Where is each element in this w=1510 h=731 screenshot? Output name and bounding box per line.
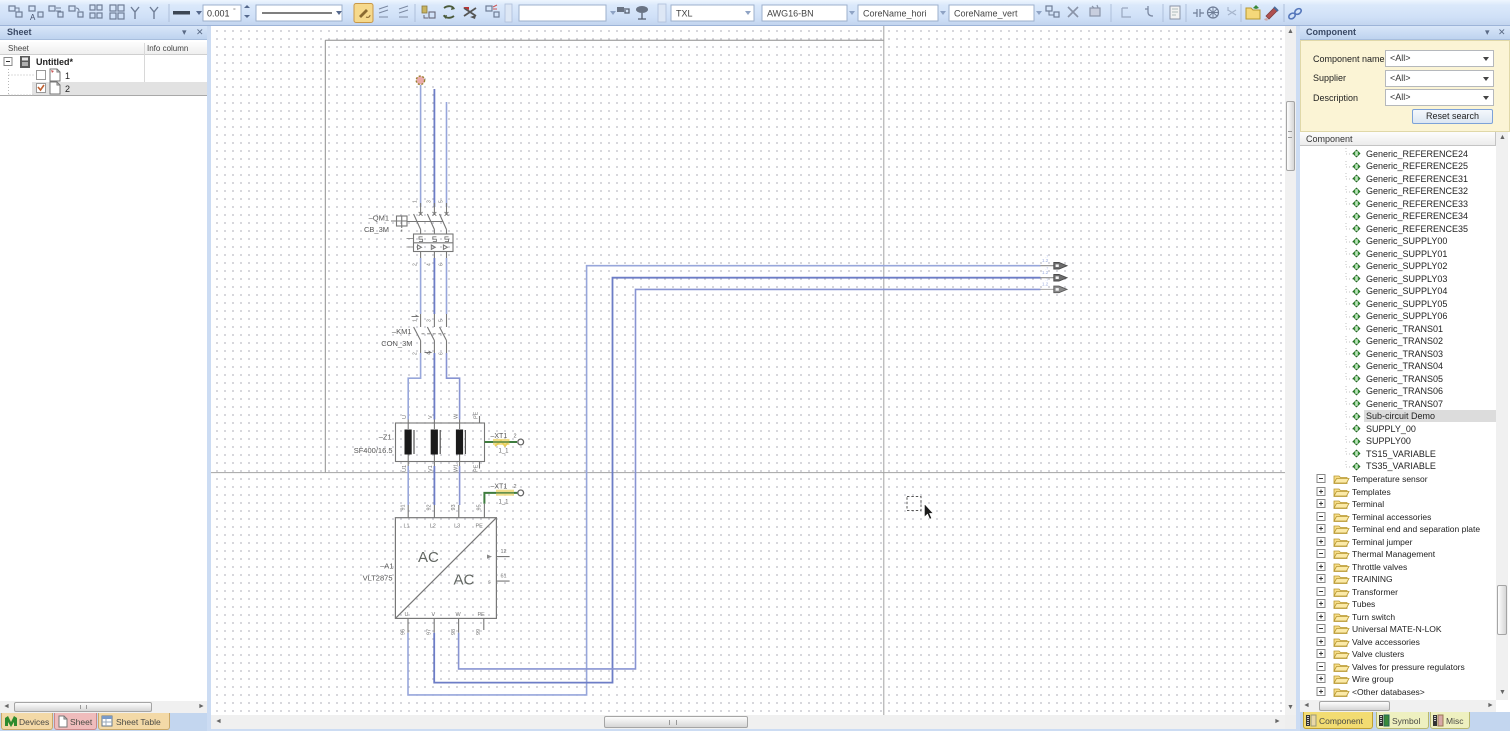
small icons after combos	[1046, 5, 1100, 17]
wire V Z1-A1	[433, 466, 435, 505]
bottom horizontal scrollbar	[0, 701, 207, 713]
svg-text:92: 92	[427, 504, 433, 510]
svg-text:W1: W1	[453, 464, 459, 472]
svg-text:–KM1: –KM1	[392, 327, 412, 336]
svg-text:–XT1: –XT1	[491, 484, 508, 491]
svg-text:4: 4	[426, 263, 432, 266]
search form	[1300, 40, 1510, 132]
A1 pin numbers rotated	[400, 504, 482, 635]
svg-text:1.2: 1.2	[1042, 258, 1049, 263]
svg-text:U: U	[405, 612, 409, 618]
svg-text:2: 2	[514, 434, 517, 440]
svg-text:2: 2	[413, 352, 419, 355]
tabs	[0, 713, 207, 731]
wire U Z1-A1	[407, 466, 409, 505]
svg-text:–XT1: –XT1	[491, 433, 508, 440]
brush icon	[1264, 7, 1278, 21]
0.001 spinner	[203, 5, 241, 21]
svg-text:CoreName_vert: CoreName_vert	[954, 9, 1018, 19]
wire L3 top	[446, 102, 448, 207]
wire motor U	[408, 266, 1041, 695]
svg-text:TXL: TXL	[676, 9, 693, 19]
QM1 pin numbers	[413, 200, 445, 266]
TXL combo	[671, 5, 754, 21]
svg-text:s: s	[488, 580, 491, 586]
canvas vertical scrollbar	[1285, 26, 1296, 715]
sheet border left	[324, 40, 326, 472]
tree area	[1300, 146, 1496, 700]
svg-text:PE: PE	[473, 464, 479, 472]
page icon row1	[50, 69, 60, 81]
wire W KM1-Z1 with jog	[447, 353, 460, 420]
svg-text:CoreName_hori: CoreName_hori	[863, 9, 927, 19]
line width button	[173, 11, 190, 15]
svg-text:97: 97	[427, 629, 433, 635]
pressed pen toggle	[354, 4, 373, 23]
signal arrow L2	[1041, 266, 1068, 282]
circuit breaker QM1	[407, 203, 448, 234]
tree header	[0, 42, 207, 55]
contactor KM1	[412, 314, 447, 353]
empty combo	[519, 5, 606, 21]
svg-text:V: V	[428, 415, 434, 419]
frequency converter A1 box	[395, 518, 496, 619]
svg-text:3: 3	[426, 319, 432, 322]
svg-text:AC: AC	[418, 549, 439, 566]
svg-text:.7: .7	[1045, 254, 1049, 259]
vertical scrollbar	[1496, 132, 1508, 700]
key + net icons	[617, 6, 648, 19]
svg-text:–Z1: –Z1	[379, 433, 392, 442]
svg-text:CB_3M: CB_3M	[364, 225, 389, 234]
wire L2 top	[433, 89, 435, 207]
checkbox row1	[37, 71, 46, 80]
Z1 choke bars	[405, 430, 464, 455]
wire U KM1-Z1 with jog	[408, 353, 420, 420]
page icon row2	[50, 82, 60, 94]
mains filter Z1 box	[396, 416, 485, 469]
placement ghost box	[907, 497, 921, 511]
A1 right pins	[496, 557, 509, 582]
QM1 trip unit box	[407, 234, 454, 252]
svg-text:L2: L2	[430, 524, 436, 530]
QM1 bottom stubs	[421, 252, 447, 259]
svg-text:1.2: 1.2	[1042, 282, 1049, 287]
folder icon	[1246, 5, 1260, 19]
terminal XT1 pin 2 with PE wire	[484, 484, 523, 506]
svg-text:1: 1	[413, 200, 419, 203]
wire L1 QM1-KM1	[420, 258, 422, 314]
bottom horizontal scrollbar	[1300, 700, 1496, 712]
tree connectors	[9, 69, 35, 96]
wire L1 top	[420, 85, 422, 207]
svg-text:°: °	[233, 7, 236, 15]
svg-text:L3: L3	[454, 524, 460, 530]
mouse cursor	[924, 504, 933, 520]
svg-text:PE: PE	[478, 612, 486, 618]
svg-text:AC: AC	[454, 571, 475, 588]
canvas horizontal scrollbar	[211, 715, 1285, 729]
column divider	[144, 43, 145, 96]
svg-text:1_1: 1_1	[499, 449, 510, 455]
line style combo	[256, 5, 342, 21]
main canvas	[211, 26, 1285, 715]
svg-text:2: 2	[514, 484, 517, 490]
KM1 pin numbers	[413, 319, 445, 355]
Z1 pin names	[402, 411, 479, 472]
svg-text:A: A	[30, 13, 36, 22]
svg-text:1.2: 1.2	[1042, 270, 1049, 275]
separator under rows	[0, 95, 207, 96]
checkbox row2 (checked)	[37, 84, 46, 93]
svg-text:96: 96	[400, 629, 406, 635]
scrollbar corner	[1285, 715, 1296, 729]
QM1 actuator	[391, 216, 407, 232]
svg-text:–QM1: –QM1	[369, 214, 389, 223]
page divider vertical	[883, 26, 885, 715]
wire L3 QM1-KM1	[446, 258, 448, 314]
CoreName_hori combo	[858, 5, 938, 21]
wire W Z1-A1	[459, 466, 461, 505]
svg-text:U1: U1	[402, 465, 408, 472]
svg-text:5: 5	[438, 200, 444, 203]
svg-text:6: 6	[438, 263, 444, 266]
svg-text:1: 1	[413, 319, 419, 322]
svg-text:61: 61	[501, 573, 507, 579]
AWG16-BN combo	[762, 5, 847, 21]
svg-text:5: 5	[438, 319, 444, 322]
svg-text:U: U	[402, 415, 408, 419]
wire motor V	[434, 278, 1040, 683]
list header	[1300, 132, 1496, 146]
terminal XT1 pin 1	[485, 433, 524, 455]
supply connection point	[416, 76, 424, 84]
icon pair: align tools	[379, 6, 408, 17]
svg-text:PE: PE	[473, 411, 479, 419]
right panel	[1300, 26, 1510, 731]
svg-text:6: 6	[438, 352, 444, 355]
chain icon	[1288, 7, 1303, 20]
svg-text:93: 93	[451, 504, 457, 510]
selected row highlight	[32, 82, 207, 95]
colorful icons	[422, 5, 499, 19]
svg-text:SF400/16.5: SF400/16.5	[354, 446, 393, 455]
svg-text:CON_3M: CON_3M	[381, 339, 412, 348]
svg-text:L1: L1	[404, 524, 410, 530]
svg-text:PE: PE	[476, 524, 484, 530]
project icon	[20, 56, 30, 68]
svg-text:12: 12	[501, 549, 507, 555]
toolbar	[0, 0, 1510, 26]
tabs	[1300, 712, 1510, 731]
page divider horizontal	[211, 472, 1285, 474]
sheet border top	[325, 39, 884, 41]
A1 pin names	[404, 524, 507, 618]
svg-text:V: V	[432, 612, 436, 618]
svg-text:95: 95	[477, 504, 483, 510]
A1 bottom pin stubs	[408, 618, 484, 632]
svg-text:2: 2	[413, 263, 419, 266]
svg-text:W: W	[456, 612, 462, 618]
title bar	[0, 26, 207, 40]
left panel	[0, 26, 207, 731]
expand box	[4, 58, 12, 66]
svg-text:VLT2875: VLT2875	[363, 574, 393, 583]
svg-text:4: 4	[426, 352, 432, 355]
svg-text:W: W	[453, 413, 459, 419]
svg-text:–A1: –A1	[380, 562, 393, 571]
svg-text:AWG16-BN: AWG16-BN	[767, 9, 814, 19]
wire motor W	[459, 289, 1041, 668]
svg-text:0.001: 0.001	[207, 9, 230, 19]
signal arrow L3	[1041, 277, 1068, 293]
A1 top pin stubs	[408, 504, 484, 518]
svg-text:91: 91	[401, 504, 407, 510]
svg-text:98: 98	[451, 629, 457, 635]
icon group: symbol tools	[9, 6, 22, 17]
svg-text:1_1: 1_1	[499, 499, 510, 505]
svg-text:99: 99	[476, 629, 482, 635]
signal arrow L1	[1041, 254, 1068, 270]
wire L2 QM1-KM1	[433, 258, 435, 314]
wire V KM1-Z1	[433, 353, 435, 420]
CoreName_vert combo	[949, 5, 1034, 21]
svg-text:3: 3	[426, 200, 432, 203]
svg-text:V1: V1	[428, 465, 434, 472]
title bar	[1300, 26, 1510, 40]
